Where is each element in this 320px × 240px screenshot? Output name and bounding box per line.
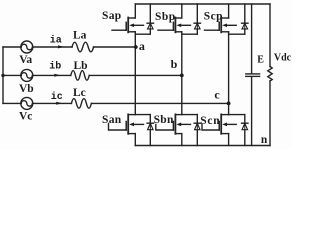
svg-text:E: E	[257, 55, 264, 66]
svg-text:Vb: Vb	[19, 83, 34, 95]
svg-text:Vc: Vc	[19, 111, 32, 123]
svg-text:Scp: Scp	[204, 11, 223, 23]
svg-text:ib: ib	[49, 61, 61, 73]
svg-text:c: c	[214, 88, 220, 102]
svg-text:Va: Va	[19, 54, 32, 66]
svg-text:ic: ic	[51, 91, 63, 103]
svg-text:Sbn: Sbn	[154, 114, 174, 126]
svg-text:Sbp: Sbp	[155, 11, 176, 23]
svg-text:ia: ia	[50, 35, 62, 47]
svg-text:a: a	[139, 39, 145, 53]
svg-text:Vdc: Vdc	[274, 53, 292, 64]
svg-text:Sap: Sap	[102, 10, 121, 22]
svg-text:Lc: Lc	[73, 87, 86, 99]
svg-text:n: n	[261, 134, 268, 146]
svg-text:b: b	[171, 57, 178, 71]
svg-text:San: San	[102, 114, 122, 126]
svg-text:Lb: Lb	[74, 60, 88, 72]
svg-text:Scn: Scn	[200, 115, 220, 127]
svg-text:La: La	[73, 30, 87, 42]
